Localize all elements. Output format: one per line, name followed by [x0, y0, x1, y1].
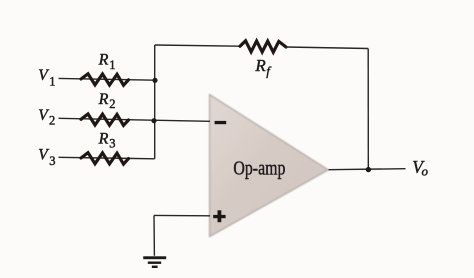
wire top feedback right segment [286, 47, 368, 49]
ground [143, 256, 166, 268]
resistor R1 [81, 74, 129, 85]
svg-text:1: 1 [109, 58, 115, 72]
svg-text:o: o [422, 163, 429, 178]
svg-text:2: 2 [109, 97, 115, 111]
wire right vertical to output [367, 49, 369, 171]
svg-text:2: 2 [49, 114, 55, 128]
node V1 label [38, 67, 55, 88]
op-amp U1 [210, 95, 329, 237]
value label Rf [254, 56, 272, 79]
svg-text:3: 3 [49, 154, 55, 168]
svg-text:V: V [38, 147, 49, 164]
svg-text:V: V [38, 67, 49, 84]
wire V2 lead through bus to inverting input [59, 118, 211, 121]
value label R2 [98, 91, 116, 111]
svg-text:R: R [254, 56, 266, 75]
svg-text:Op-amp: Op-amp [233, 158, 285, 180]
node junction at R1/bus [152, 78, 157, 83]
wire down to ground [153, 215, 155, 255]
svg-text:1: 1 [49, 74, 55, 88]
node V3 label [38, 147, 55, 169]
wire V3 lead to bus corner [59, 157, 155, 159]
value label R3 [98, 131, 116, 151]
svg-text:3: 3 [109, 137, 115, 151]
pin minus (inverting input symbol) [215, 121, 227, 124]
node Vo label [412, 157, 428, 179]
wire top feedback left segment [155, 45, 240, 46]
svg-text:R: R [98, 51, 109, 68]
wire vertical bus [154, 45, 156, 159]
svg-text:R: R [98, 91, 109, 108]
value label R1 [98, 51, 116, 71]
pin plus (noninverting input symbol) [213, 210, 225, 222]
node junction at R2/bus [151, 118, 156, 123]
node V2 label [38, 107, 55, 128]
svg-text:V: V [38, 107, 49, 124]
resistor R3 [81, 153, 129, 164]
svg-text:f: f [266, 64, 272, 79]
wire noninverting input [154, 214, 210, 216]
svg-text:R: R [98, 131, 109, 148]
wire output [329, 169, 406, 170]
resistor R2 [81, 114, 129, 125]
resistor Rf [240, 41, 286, 52]
node junction at output [366, 167, 371, 172]
wire V1 lead and to bus [59, 78, 156, 80]
